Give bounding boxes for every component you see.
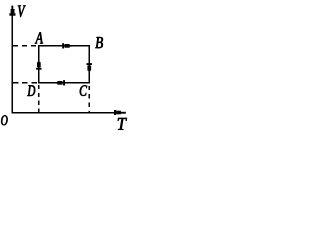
label V [18, 6, 26, 18]
arrow B to C (right edge, downward) [87, 63, 92, 72]
dashed line C down to T axis [88, 86, 90, 112]
label C [80, 85, 87, 96]
T axis arrowhead [114, 110, 126, 115]
dashed line D down to T axis [38, 85, 40, 112]
V axis [11, 6, 13, 113]
dashed line axis to D [13, 82, 39, 84]
label O [1, 115, 7, 125]
label A [35, 32, 43, 43]
arrow A to B (top edge, rightward) [62, 43, 70, 48]
label D [27, 85, 35, 96]
V axis arrowhead [9, 6, 15, 16]
label T [118, 118, 127, 130]
label B [95, 37, 103, 48]
T axis [11, 112, 121, 114]
dashed line axis to A [13, 45, 39, 47]
arrow C to D (bottom edge, leftward) [56, 80, 65, 85]
arrow D to A (left edge, upward) [36, 61, 41, 70]
rectangle ABCD [39, 46, 89, 83]
